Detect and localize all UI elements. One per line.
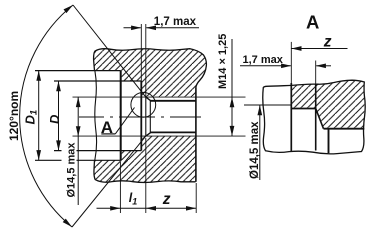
120deg cone construction line upper <box>73 5 146 97</box>
svg-text:z: z <box>162 191 171 208</box>
thread dimension M14x1.25 line <box>231 39 233 136</box>
counterbore / thread major line bottom <box>73 135 246 137</box>
thread minor (bore) line bottom <box>150 131 196 133</box>
detail z dimension <box>291 48 347 50</box>
1.7 max arrows top <box>124 27 141 29</box>
120deg cone construction line lower <box>72 136 146 227</box>
dimension dia 14.5 max line <box>77 97 79 205</box>
right face of part <box>195 88 197 182</box>
arc arrow top <box>64 3 75 13</box>
dimension D line <box>58 81 60 151</box>
svg-text:A: A <box>306 12 319 33</box>
break outline (wavy freehand edges of part) <box>94 49 207 88</box>
break line through well (left wavy edge) <box>95 70 97 160</box>
detail seat face extension up <box>290 42 292 83</box>
leader for detail label A <box>115 108 134 134</box>
svg-text:1,7 max: 1,7 max <box>243 54 284 66</box>
detail circle A <box>131 92 156 117</box>
bore D surface bottom <box>54 150 141 152</box>
extension line z right (part face extended) <box>195 183 197 213</box>
dimension D1 line <box>38 71 40 161</box>
counterbore / thread major line top <box>73 96 246 98</box>
material block upper (hatched) <box>94 49 207 97</box>
chamfer cone top <box>146 97 151 101</box>
detail blob outline (wavy) <box>263 80 365 154</box>
detail dia 14.5 max dimension <box>259 105 261 180</box>
detail seat face vertical <box>290 83 292 152</box>
svg-text:M14 × 1,25: M14 × 1,25 <box>217 34 229 89</box>
detail 1.7 max dimension <box>240 65 291 67</box>
svg-text:120°nom: 120°nom <box>7 91 21 141</box>
svg-text:Ø14,5 max: Ø14,5 max <box>66 142 78 198</box>
thread minor (bore) line top <box>150 100 196 102</box>
detail counterbore surface <box>291 108 315 110</box>
detail chamfer cone <box>316 109 324 129</box>
svg-text:z: z <box>323 33 332 50</box>
detail counterbore extension left <box>244 104 291 106</box>
extension line l1 left (pocket face extended) <box>119 162 121 213</box>
thread start edge across bore <box>149 101 151 133</box>
detail material (hatched) <box>291 80 364 129</box>
svg-text:Ø14,5 max: Ø14,5 max <box>249 121 261 179</box>
pocket floor surface D1 bottom <box>35 159 121 161</box>
centerline (axis) <box>79 116 201 118</box>
extension line l1/z boundary <box>145 138 147 213</box>
detail counterbore end extension <box>315 61 317 84</box>
chamfer cone bottom <box>146 132 151 136</box>
bore D surface top <box>54 80 141 82</box>
pocket floor face (vertical) <box>120 71 122 161</box>
svg-text:D: D <box>47 114 62 124</box>
material block lower (hatched) <box>94 136 196 182</box>
svg-text:1,7 max: 1,7 max <box>154 16 197 28</box>
detail thread bore line <box>324 128 365 130</box>
bottom dimension line l1 and z <box>97 207 197 209</box>
extension lines for 1.7 max top <box>140 24 142 81</box>
seat face (vertical thick) <box>140 81 142 151</box>
chamfer edge vertical at thread entry <box>145 97 147 136</box>
pocket floor surface D1 top <box>35 70 121 72</box>
120deg dimension arc <box>20 5 73 227</box>
arc arrow bottom <box>63 219 74 229</box>
